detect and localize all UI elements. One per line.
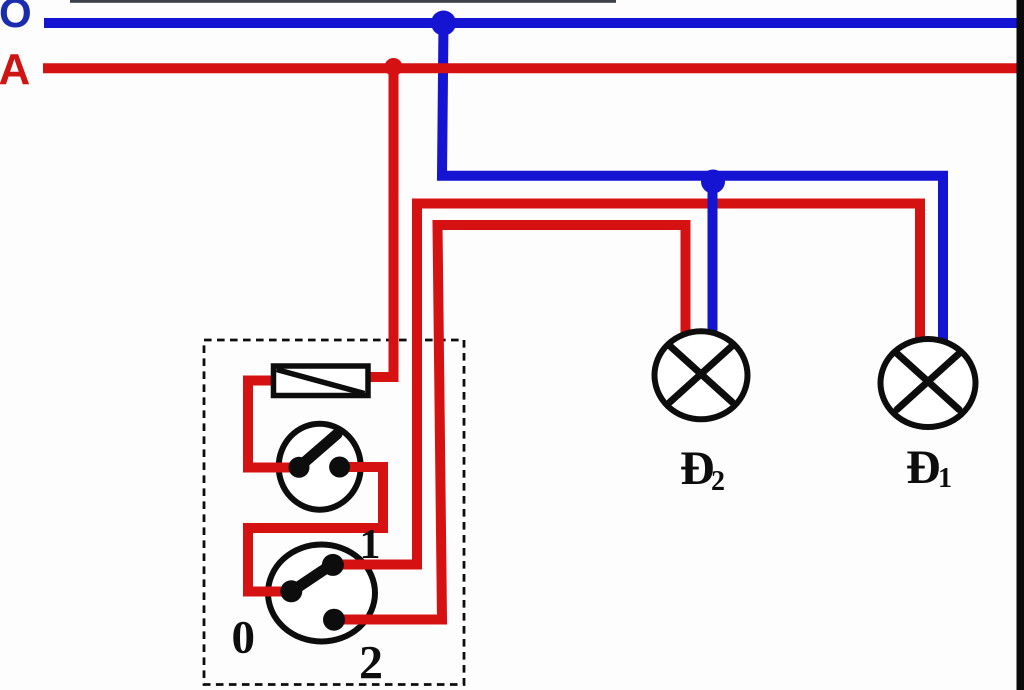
svg-text:Đ: Đ [680,442,715,495]
svg-text:2: 2 [359,637,383,690]
svg-text:2: 2 [711,466,725,497]
svg-text:0: 0 [232,612,256,664]
svg-text:Đ: Đ [906,441,941,494]
svg-text:1: 1 [938,463,952,494]
svg-text:O: O [0,0,32,36]
svg-text:A: A [0,45,30,94]
svg-text:1: 1 [360,522,381,568]
